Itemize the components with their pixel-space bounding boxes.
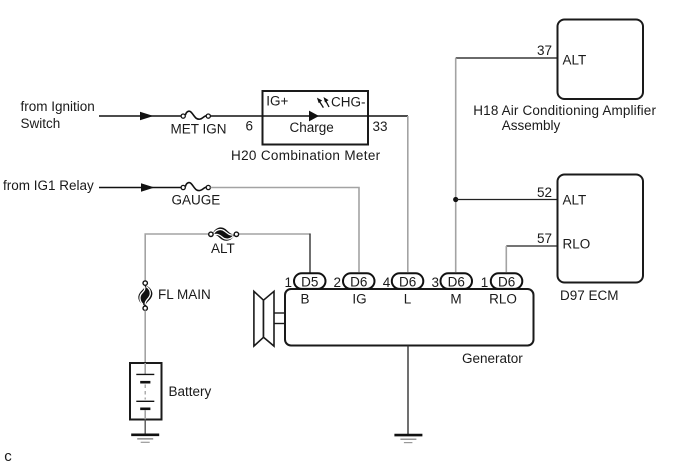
svg-text:37: 37	[537, 43, 552, 58]
svg-text:D6: D6	[350, 275, 367, 290]
svg-text:RLO: RLO	[489, 291, 517, 306]
connector D6 (L)	[392, 273, 424, 289]
svg-text:D6: D6	[448, 275, 465, 290]
svg-text:D6: D6	[399, 275, 416, 290]
wire fuse MET IGN to combination meter pin 6	[211, 115, 263, 117]
svg-text:D97 ECM: D97 ECM	[560, 288, 619, 303]
connector D6 (IG)	[343, 273, 375, 289]
wire battery trunk to fusible link ALT and generator B	[145, 234, 310, 281]
combination meter box	[263, 91, 369, 145]
svg-text:GAUGE: GAUGE	[172, 192, 221, 207]
charge lamp emission arrows	[317, 97, 329, 108]
connector D5 (B)	[294, 273, 326, 289]
svg-text:B: B	[300, 291, 309, 306]
svg-text:Switch: Switch	[21, 116, 61, 131]
connector D6 (RLO)	[491, 273, 523, 289]
wire to ECM ALT pin 52	[456, 199, 558, 201]
generator box	[285, 289, 534, 346]
wire generator to ground	[407, 346, 409, 435]
svg-text:3: 3	[432, 275, 440, 290]
svg-text:L: L	[404, 291, 412, 306]
svg-text:57: 57	[537, 231, 552, 246]
H18 name label	[473, 103, 656, 133]
svg-text:H18 Air Conditioning Amplifier: H18 Air Conditioning Amplifier	[473, 103, 656, 118]
fuse GAUGE	[172, 183, 221, 208]
svg-text:H20 Combination Meter: H20 Combination Meter	[231, 148, 381, 163]
node label: from Ignition Switch	[21, 99, 95, 131]
svg-text:1: 1	[285, 275, 293, 290]
svg-text:6: 6	[246, 119, 254, 134]
fuse MET IGN	[171, 111, 227, 136]
svg-text:Battery: Battery	[169, 384, 212, 399]
svg-text:FL MAIN: FL MAIN	[158, 287, 211, 302]
svg-text:Charge: Charge	[290, 120, 334, 135]
svg-text:2: 2	[334, 275, 342, 290]
wire H18 ALT pin 37	[456, 57, 558, 59]
A/C amplifier H18 box	[558, 20, 644, 100]
generator pulley	[254, 291, 285, 346]
svg-text:c: c	[4, 448, 12, 465]
wire through meter (charge lamp circuit)	[263, 111, 369, 122]
svg-text:from Ignition: from Ignition	[21, 99, 95, 114]
svg-text:Assembly: Assembly	[502, 118, 561, 133]
svg-text:ALT: ALT	[211, 241, 235, 256]
battery	[130, 363, 212, 420]
svg-text:ALT: ALT	[563, 193, 587, 208]
junction node	[453, 197, 458, 202]
svg-text:from IG1 Relay: from IG1 Relay	[3, 178, 94, 193]
svg-text:52: 52	[537, 185, 552, 200]
wire fusible link FL MAIN to battery	[144, 310, 146, 374]
wire meter pin 33 to generator L	[368, 116, 408, 272]
svg-text:CHG-: CHG-	[331, 95, 366, 110]
wire fuse GAUGE to generator IG	[211, 188, 360, 273]
svg-text:ALT: ALT	[563, 53, 587, 68]
wire generator RLO to ECM pin 57	[506, 246, 557, 272]
fusible link ALT	[209, 228, 239, 256]
svg-text:IG: IG	[352, 291, 366, 306]
svg-text:IG+: IG+	[266, 93, 288, 108]
connector D6 (M)	[441, 273, 473, 289]
ground (battery)	[131, 435, 159, 443]
svg-text:M: M	[450, 291, 461, 306]
svg-text:Generator: Generator	[462, 351, 523, 366]
trunk wire generator M to H18/ECM	[455, 58, 457, 272]
svg-text:D5: D5	[301, 275, 318, 290]
svg-text:D6: D6	[498, 275, 515, 290]
svg-text:33: 33	[373, 119, 388, 134]
ECM D97 box	[558, 175, 644, 283]
svg-text:4: 4	[383, 275, 391, 290]
svg-text:1: 1	[481, 275, 489, 290]
svg-text:MET IGN: MET IGN	[171, 122, 227, 137]
wire battery to ground	[144, 419, 146, 435]
ground (generator)	[394, 435, 422, 443]
svg-text:RLO: RLO	[563, 237, 591, 252]
wire from IG1 relay to fuse GAUGE	[99, 183, 182, 192]
wire from ignition switch to fuse MET IGN	[99, 112, 182, 121]
fusible link FL MAIN	[139, 281, 211, 311]
